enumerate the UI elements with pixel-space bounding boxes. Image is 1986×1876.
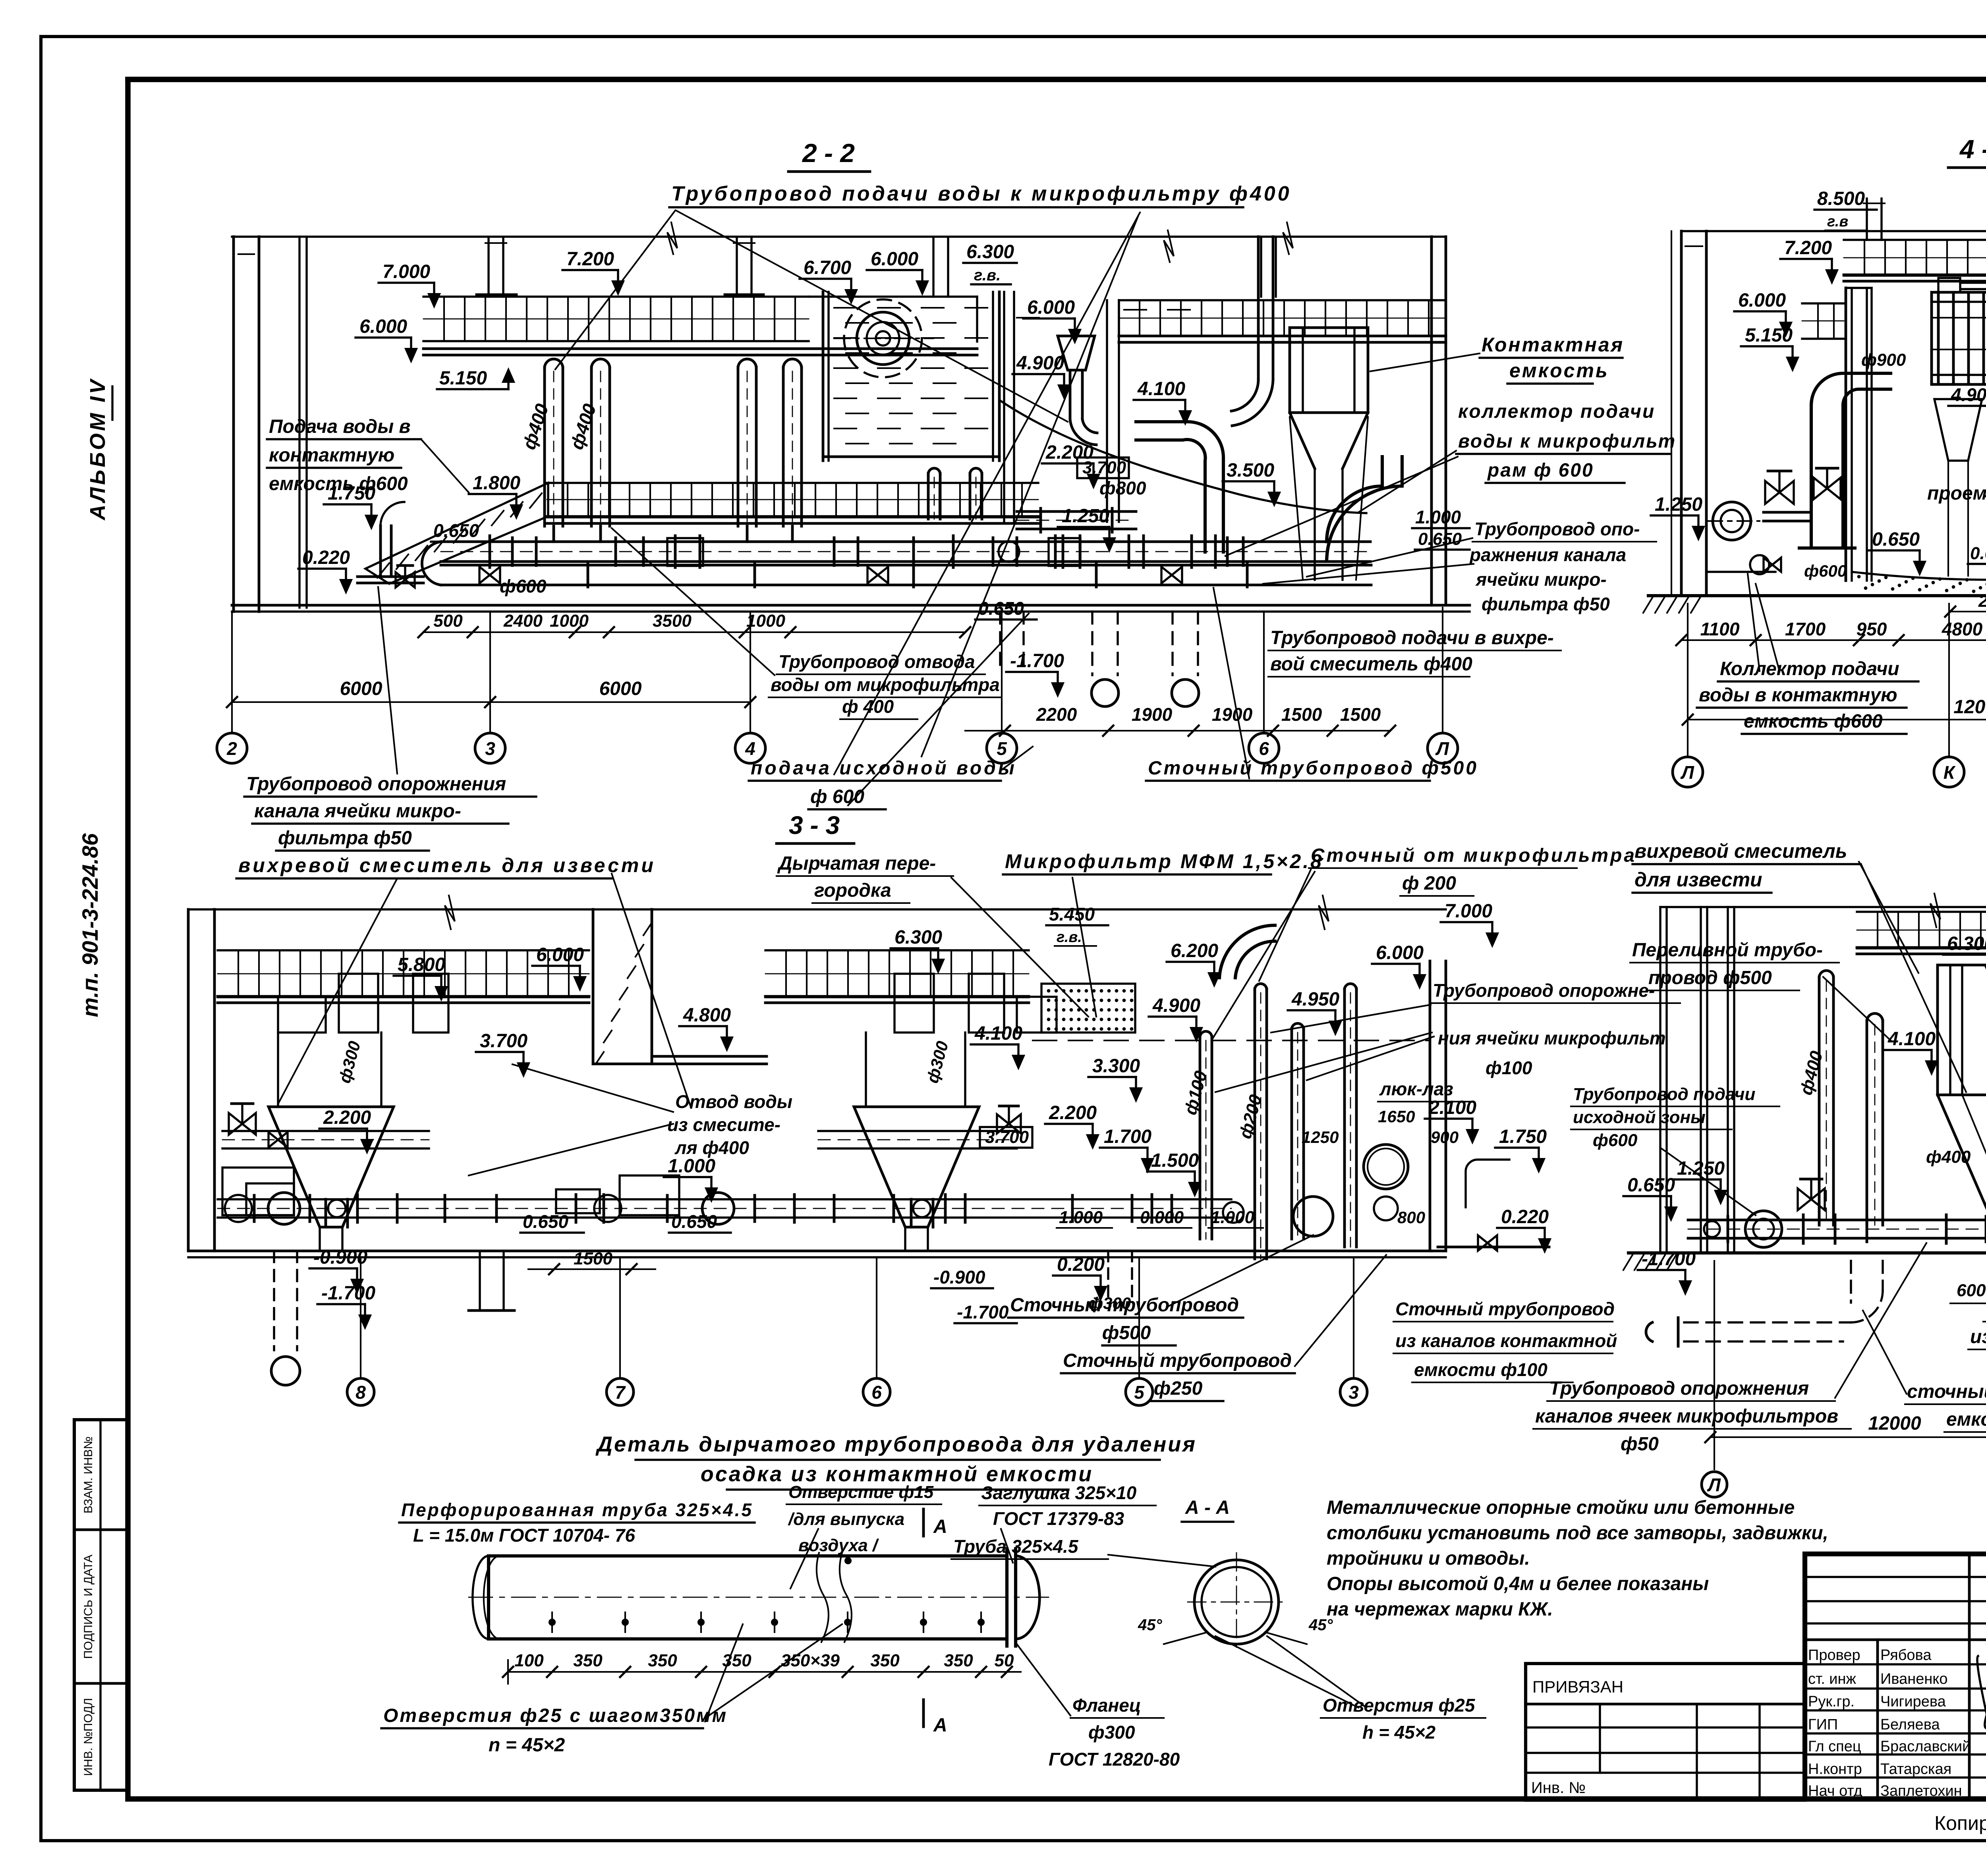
svg-text:-0.900: -0.900 (933, 1267, 985, 1287)
vortex mixer body 55 (1938, 965, 1986, 1095)
svg-text:сточный из контактной: сточный из контактной (1907, 1381, 1986, 1402)
svg-text:ф100: ф100 (1486, 1058, 1532, 1078)
right bay valve assembly (997, 1114, 1021, 1133)
svg-text:0.650: 0.650 (433, 520, 479, 541)
svg-text:ГИП: ГИП (1808, 1716, 1838, 1733)
svg-text:Сточный трубопровод ф500: Сточный трубопровод ф500 (1148, 758, 1478, 779)
ceiling slab right 2-2 (1119, 299, 1446, 301)
left feed pipe and valve (379, 526, 382, 577)
big elbow top 33 (1219, 925, 1275, 978)
top line 55 (1660, 906, 1986, 908)
drop pipe from above (1257, 237, 1260, 380)
svg-text:50: 50 (995, 1651, 1014, 1670)
svg-text:600: 600 (1957, 1281, 1986, 1300)
svg-text:h = 45×2: h = 45×2 (1362, 1722, 1436, 1743)
svg-text:1100: 1100 (1700, 619, 1740, 639)
pipes lower network 33 (218, 1198, 1231, 1200)
svg-text:5.800: 5.800 (398, 954, 445, 975)
pump block left 3-3 (246, 1183, 294, 1215)
svg-text:К: К (1943, 762, 1956, 783)
svg-text:5.150: 5.150 (1745, 325, 1793, 346)
svg-text:контактную: контактную (269, 445, 394, 466)
svg-text:5.150: 5.150 (439, 368, 487, 389)
svg-text:Контактная: Контактная (1482, 334, 1624, 356)
main pipe 55 (1688, 1219, 1986, 1222)
svg-text:2 - 2: 2 - 2 (802, 138, 855, 168)
dimension row 2-2 right (965, 730, 1390, 731)
slab edge step at pump bay (976, 297, 978, 342)
svg-text:350: 350 (944, 1651, 973, 1670)
svg-text:ПРИВЯЗАН: ПРИВЯЗАН (1532, 1677, 1623, 1696)
svg-text:2200: 2200 (1036, 704, 1077, 725)
svg-text:ГОСТ 12820-80: ГОСТ 12820-80 (1049, 1749, 1180, 1770)
svg-text:ния ячейки микрофильт: ния ячейки микрофильт (1438, 1028, 1666, 1048)
microfilter drum bars (1937, 295, 1940, 382)
svg-text:Л: Л (1707, 1475, 1721, 1495)
svg-text:1.250: 1.250 (1655, 494, 1702, 515)
svg-text:Л: Л (1680, 762, 1694, 783)
leader lines from top label (555, 210, 675, 369)
inclined hatch ramp (365, 483, 548, 584)
riser f200 33 (1254, 989, 1256, 1259)
svg-text:Трубопровод подачи воды к микр: Трубопровод подачи воды к микрофильтру ф… (671, 182, 1292, 205)
riser stubs to pipe 2-2 (553, 526, 555, 542)
svg-text:6.300: 6.300 (894, 927, 942, 948)
grid bubbles 3-3 (360, 1257, 361, 1377)
svg-text:0.650: 0.650 (671, 1211, 717, 1232)
signatures scribble (1977, 1656, 1986, 1786)
svg-text:ИНВ. №ПОДЛ: ИНВ. №ПОДЛ (82, 1698, 95, 1776)
riser f400 left 55 (1818, 977, 1821, 1225)
svg-text:1.000: 1.000 (1211, 1208, 1255, 1227)
svg-text:Н.контр: Н.контр (1808, 1761, 1862, 1778)
svg-text:1.250: 1.250 (1062, 506, 1109, 527)
svg-text:Отвод воды: Отвод воды (675, 1091, 792, 1112)
svg-text:6: 6 (871, 1382, 882, 1403)
riser f100 33 (1199, 1036, 1202, 1239)
svg-text:Иваненко: Иваненко (1880, 1671, 1948, 1687)
svg-text:2400: 2400 (1978, 591, 1986, 611)
ceiling slab 4-4 (1844, 239, 1986, 241)
svg-text:ля ф400: ля ф400 (674, 1137, 749, 1158)
svg-text:ГОСТ 17379-83: ГОСТ 17379-83 (993, 1508, 1124, 1529)
name rows (1805, 1663, 1986, 1665)
vessel bottom curve (1852, 572, 1986, 580)
svg-text:Трубопровод отвода: Трубопровод отвода (779, 651, 975, 672)
svg-text:1900: 1900 (1212, 704, 1253, 725)
svg-text:0.220: 0.220 (302, 547, 350, 568)
svg-text:6.000: 6.000 (359, 316, 407, 337)
pipe centerline (469, 1597, 1049, 1598)
svg-text:1900: 1900 (1132, 704, 1173, 725)
ceiling slab 55 A (1857, 911, 1986, 913)
svg-text:1.500: 1.500 (1151, 1150, 1199, 1171)
vortex mixer left cone (269, 1107, 394, 1227)
detail pipe body (489, 1556, 1007, 1639)
pump block mid 3-3 (594, 1195, 621, 1222)
svg-text:из каналов контактной: из каналов контактной (1395, 1330, 1617, 1351)
riser pipes group A (543, 367, 546, 526)
svg-text:0.650: 0.650 (1627, 1175, 1675, 1196)
svg-text:6.000: 6.000 (1376, 942, 1424, 963)
left valve assembly 33 (229, 1113, 256, 1135)
svg-text:тройники и отводы.: тройники и отводы. (1327, 1548, 1530, 1569)
svg-text:350: 350 (573, 1651, 603, 1670)
svg-text:коллектор подачи: коллектор подачи (1458, 401, 1655, 422)
AA circle (1194, 1560, 1279, 1644)
svg-text:1500: 1500 (1340, 704, 1381, 725)
pump 55 (1745, 1211, 1782, 1247)
partition wall column 33 (592, 909, 595, 1064)
svg-text:5: 5 (997, 738, 1007, 759)
dashed drain pipe bottom 55 (1684, 1321, 1851, 1323)
svg-text:для извести: для извести (1634, 869, 1762, 891)
svg-text:5.450: 5.450 (1049, 904, 1095, 924)
svg-text:1500: 1500 (574, 1249, 612, 1268)
svg-text:3.300: 3.300 (1092, 1056, 1140, 1077)
svg-text:4.100: 4.100 (1137, 378, 1185, 400)
vessel funnel (1290, 413, 1368, 469)
vortex mixer right cone (854, 1107, 979, 1227)
svg-text:6000: 6000 (599, 678, 642, 699)
hole pointer top (845, 1558, 851, 1563)
svg-text:ф 400: ф 400 (842, 696, 894, 717)
svg-text:0.650: 0.650 (1872, 529, 1920, 550)
svg-text:3.700: 3.700 (480, 1031, 527, 1052)
contact tank vessel (1290, 328, 1368, 413)
svg-text:6.000: 6.000 (871, 249, 918, 270)
funnel hoppers under drum (1934, 399, 1982, 461)
valve small f600 44 (1764, 558, 1781, 571)
dim row 4-4 chain (1681, 639, 1986, 641)
pipe right flange (1005, 1549, 1008, 1646)
right boundary wall 33 (1429, 961, 1432, 1251)
svg-text:воды в контактную: воды в контактную (1699, 685, 1897, 706)
riser mid 55 (1866, 1021, 1868, 1225)
svg-text:Заглушка 325×10: Заглушка 325×10 (981, 1482, 1137, 1503)
svg-text:фильтра ф50: фильтра ф50 (278, 828, 412, 849)
top reference line 4-4 (1681, 230, 1986, 232)
svg-text:емкости ф100: емкости ф100 (1414, 1359, 1547, 1380)
extra flanges 5-5 pipe (1727, 1216, 1729, 1242)
top frame rule (128, 77, 1986, 82)
svg-text:6: 6 (1259, 738, 1269, 759)
svg-text:Трубопровод подачи в вихре-: Трубопровод подачи в вихре- (1270, 627, 1554, 648)
svg-text:Рябова: Рябова (1880, 1647, 1932, 1664)
svg-text:1.750: 1.750 (1499, 1126, 1547, 1147)
svg-text:4.800: 4.800 (683, 1005, 731, 1026)
svg-text:4800: 4800 (1942, 619, 1983, 639)
svg-text:Перфорированная труба 325×4.5: Перфорированная труба 325×4.5 (401, 1500, 753, 1520)
title block verticals (1876, 1640, 1879, 1799)
svg-text:Браславский: Браславский (1880, 1738, 1971, 1755)
svg-text:г.в: г.в (1827, 213, 1848, 230)
slab small left patch (1802, 302, 1844, 304)
drain holes (549, 1619, 555, 1625)
perforated plate dotted (1041, 984, 1135, 1033)
svg-text:0.000: 0.000 (1970, 544, 1986, 563)
svg-text:1.800: 1.800 (473, 473, 520, 494)
svg-text:1250: 1250 (1302, 1128, 1339, 1146)
svg-text:ВЗАМ. ИНВ№: ВЗАМ. ИНВ№ (82, 1436, 95, 1513)
dim row 55 (1710, 1436, 1986, 1438)
extra flanges 3-3 pipe (253, 1195, 256, 1222)
riser pair c 33 (1291, 1029, 1293, 1239)
water surface hatching (834, 307, 856, 309)
dim row 12000 44 (1688, 719, 1986, 720)
svg-text:Л: Л (1435, 738, 1449, 759)
privyazan table (1526, 1664, 1805, 1800)
svg-text:6.300: 6.300 (1947, 933, 1986, 954)
svg-text:вихревой смеситель для извести: вихревой смеситель для извести (238, 854, 656, 876)
svg-text:ст. инж: ст. инж (1808, 1671, 1857, 1687)
wall axis 2 left wall (232, 237, 235, 612)
svg-text:ф 200: ф 200 (1402, 873, 1456, 894)
svg-text:4.900: 4.900 (1016, 353, 1064, 374)
svg-text:6.000: 6.000 (1027, 297, 1075, 318)
svg-text:рам ф 600: рам ф 600 (1487, 460, 1594, 481)
svg-text:0.220: 0.220 (1501, 1206, 1549, 1228)
svg-text:0.650: 0.650 (523, 1211, 569, 1232)
svg-text:1.000: 1.000 (1415, 507, 1461, 527)
svg-text:Отверстие ф15: Отверстие ф15 (788, 1482, 934, 1502)
svg-text:Копировал· Коршунова: Копировал· Коршунова (1934, 1812, 1986, 1834)
riser pair d 33 (1343, 989, 1346, 1247)
ceiling slab 33 A (218, 949, 589, 951)
svg-text:3: 3 (485, 738, 495, 759)
microfilter drum outline (1932, 292, 1986, 384)
extra flanges main pipe 2-2 (511, 538, 514, 566)
svg-text:5: 5 (1134, 1382, 1145, 1403)
grid bubble L 2-2 (1442, 608, 1443, 733)
svg-text:1700: 1700 (1785, 619, 1826, 639)
left wall 4-4 (1680, 231, 1683, 596)
svg-text:8.500: 8.500 (1817, 188, 1865, 209)
svg-text:/для выпуска: /для выпуска (788, 1509, 904, 1529)
svg-text:А: А (933, 1715, 947, 1736)
svg-text:-0.900: -0.900 (313, 1247, 367, 1268)
main pipe upper f600 (441, 540, 1370, 543)
svg-text:Фланец: Фланец (1072, 1695, 1141, 1716)
svg-text:n = 45×2: n = 45×2 (489, 1735, 565, 1756)
svg-text:7.200: 7.200 (1784, 237, 1832, 259)
ceiling slab 33 B (765, 949, 1029, 951)
elbow cluster right 2-2 (1327, 457, 1382, 542)
mixer support boxes right bay (894, 974, 934, 1033)
svg-text:2.200: 2.200 (1049, 1102, 1097, 1123)
svg-text:2.200: 2.200 (323, 1107, 371, 1128)
pipe cross-section circles 33 (268, 1193, 300, 1224)
feed funnel (1058, 336, 1095, 370)
svg-text:Дырчатая пере-: Дырчатая пере- (777, 853, 936, 874)
svg-text:1.700: 1.700 (1104, 1126, 1151, 1147)
svg-text:на чертежах марки КЖ.: на чертежах марки КЖ. (1327, 1599, 1553, 1620)
svg-text:Подача воды в: Подача воды в (269, 416, 411, 437)
big elbow pipe 4-4 (1810, 405, 1813, 548)
left stamp box (74, 1420, 128, 1790)
title block top rows (1805, 1576, 1986, 1578)
svg-text:фильтра ф50: фильтра ф50 (1482, 594, 1610, 614)
wall column right (1106, 300, 1108, 522)
underfloor drain left (273, 1251, 275, 1350)
svg-text:Инв. №: Инв. № (1531, 1779, 1586, 1797)
svg-text:3.500: 3.500 (1227, 460, 1274, 481)
main pipe lower (441, 564, 1371, 567)
svg-text:6.000: 6.000 (536, 944, 584, 965)
svg-text:350: 350 (648, 1651, 677, 1670)
left wall 33 (187, 909, 190, 1251)
svg-text:А: А (933, 1516, 947, 1537)
svg-text:Нач отд: Нач отд (1808, 1783, 1862, 1799)
svg-text:вой смеситель ф400: вой смеситель ф400 (1270, 654, 1472, 675)
svg-text:емкость ф600: емкость ф600 (1744, 711, 1883, 732)
svg-text:Чигирева: Чигирева (1880, 1693, 1946, 1710)
svg-text:ячейки микро-: ячейки микро- (1475, 569, 1607, 590)
collector pipe stub 2-2 (1017, 510, 1136, 513)
dim row 2400-500 (1950, 611, 1986, 612)
slab soffit double line (423, 347, 977, 350)
dimension row 6000 (232, 701, 750, 703)
svg-text:вихревой смеситель: вихревой смеситель (1634, 840, 1847, 862)
svg-text:7.000: 7.000 (383, 261, 430, 282)
valve cluster mid 2-2 (999, 541, 1019, 562)
svg-text:г.в.: г.в. (1057, 929, 1082, 946)
svg-text:ф500: ф500 (1102, 1322, 1151, 1343)
water level dash 33 (1033, 1040, 1430, 1041)
mixer funnel 55 (1938, 1095, 1986, 1225)
svg-text:Провер: Провер (1808, 1647, 1860, 1664)
svg-text:500: 500 (433, 611, 463, 631)
lower slab 2-2 (547, 482, 1038, 484)
manifold boxes left (222, 1168, 294, 1215)
water tank walls (822, 292, 825, 461)
svg-text:0.200: 0.200 (1057, 1254, 1105, 1275)
svg-text:3 - 3: 3 - 3 (789, 811, 840, 840)
svg-text:столбики установить под все за: столбики установить под все затворы, зад… (1327, 1523, 1828, 1544)
svg-text:8: 8 (355, 1382, 366, 1403)
svg-text:45°: 45° (1138, 1616, 1162, 1634)
small risers near tank (927, 473, 930, 519)
svg-text:2: 2 (226, 738, 237, 759)
underfloor stub mid (479, 1251, 481, 1310)
svg-text:исходной зоны: исходной зоны (1573, 1108, 1706, 1127)
svg-text:емкость: емкость (1509, 359, 1609, 382)
svg-text:100: 100 (514, 1651, 544, 1670)
wall leftmost aux (1671, 231, 1672, 596)
svg-text:Трубопровод опорожнения: Трубопровод опорожнения (246, 774, 506, 795)
vessel walls 4-4 (1845, 288, 1847, 581)
svg-text:-1.700: -1.700 (321, 1283, 375, 1304)
svg-text:6.000: 6.000 (1738, 290, 1786, 311)
AA 45deg lines (1164, 1632, 1207, 1644)
svg-text:L = 15.0м ГОСТ 10704- 76: L = 15.0м ГОСТ 10704- 76 (413, 1525, 635, 1546)
grid bubbles 55 (1714, 1261, 1715, 1469)
svg-text:Заплетохин: Заплетохин (1880, 1783, 1962, 1799)
svg-text:г.в.: г.в. (974, 266, 1001, 284)
svg-text:7.200: 7.200 (566, 249, 614, 270)
svg-text:Сточный трубопровод: Сточный трубопровод (1063, 1350, 1292, 1371)
wall column mid (1003, 292, 1005, 522)
dimension row 2-2 small (423, 631, 965, 633)
top line 3-3 (188, 908, 1446, 910)
section A marker bottom (922, 1700, 925, 1727)
svg-text:из смесите-: из смесите- (667, 1114, 780, 1135)
f300 drop right (1107, 1251, 1109, 1303)
svg-text:Сточный трубопровод: Сточный трубопровод (1395, 1299, 1615, 1319)
svg-text:А - А: А - А (1185, 1497, 1230, 1518)
svg-text:воды от микрофильтра: воды от микрофильтра (771, 674, 1000, 695)
overflow profile line (1001, 401, 1366, 513)
svg-text:4: 4 (745, 738, 755, 759)
svg-text:т.п. 901-3-224.86: т.п. 901-3-224.86 (77, 833, 102, 1017)
mixer outlet stubs 3-3 (325, 1199, 327, 1227)
svg-text:350: 350 (870, 1651, 900, 1670)
svg-text:7.000: 7.000 (1445, 901, 1492, 922)
pipe valves (867, 567, 888, 583)
roof columns (487, 238, 489, 297)
svg-text:4.900: 4.900 (1152, 995, 1200, 1016)
dim 1500 33 (528, 1268, 655, 1270)
water dashes small 2-2 right (1124, 309, 1146, 311)
floor line 33 (188, 1250, 1446, 1253)
svg-text:4 - 4: 4 - 4 (1959, 134, 1986, 164)
svg-text:ф600: ф600 (500, 576, 547, 596)
svg-text:3: 3 (1348, 1382, 1359, 1403)
ground 55 (1629, 1251, 1986, 1255)
svg-text:ф900: ф900 (1861, 350, 1906, 370)
svg-text:ражнения канала: ражнения канала (1469, 544, 1626, 565)
svg-text:ф50: ф50 (1621, 1434, 1659, 1455)
svg-text:2400: 2400 (503, 611, 543, 631)
svg-text:900: 900 (1431, 1128, 1459, 1146)
large f800 elbow (1136, 422, 1223, 552)
roof columns 44 (1866, 199, 1868, 240)
svg-text:6000: 6000 (340, 678, 383, 699)
svg-text:ф400: ф400 (1926, 1147, 1971, 1167)
manhole circle (1364, 1145, 1408, 1189)
svg-text:7: 7 (615, 1382, 626, 1403)
svg-text:канала ячейки микро-: канала ячейки микро- (254, 801, 461, 822)
svg-text:2.100: 2.100 (1428, 1097, 1476, 1118)
svg-text:из вихревого смесителя: из вихревого смесителя (1970, 1326, 1986, 1347)
svg-text:1.000: 1.000 (668, 1156, 715, 1177)
svg-text:ф600: ф600 (1593, 1131, 1638, 1150)
svg-text:0.000: 0.000 (1140, 1208, 1184, 1227)
riser pipes group B (737, 367, 740, 526)
svg-text:4.100: 4.100 (1887, 1029, 1936, 1050)
svg-text:800: 800 (1397, 1208, 1425, 1227)
svg-text:ПОДПИСЬ И ДАТА: ПОДПИСЬ И ДАТА (82, 1555, 95, 1659)
svg-text:Металлические опорные стойки и: Металлические опорные стойки или бетонны… (1327, 1497, 1795, 1518)
top reference line 2-2 (232, 235, 1446, 237)
floor line 2-2 (232, 604, 1470, 607)
svg-text:950: 950 (1857, 619, 1887, 639)
svg-text:6.700: 6.700 (804, 257, 851, 278)
svg-text:3500: 3500 (653, 611, 692, 631)
svg-text:1650: 1650 (1378, 1107, 1415, 1126)
section A marker top (922, 1509, 925, 1536)
underfloor drop pipes with circles (1091, 612, 1093, 675)
svg-text:6.300: 6.300 (966, 241, 1014, 262)
svg-text:люк-лаз: люк-лаз (1379, 1079, 1453, 1099)
svg-text:-1.700: -1.700 (957, 1302, 1009, 1322)
svg-text:Отверстия ф25 с шагом350мм: Отверстия ф25 с шагом350мм (383, 1705, 728, 1726)
svg-text:Сточный трубопровод: Сточный трубопровод (1010, 1295, 1239, 1316)
pump trim 5-5 (1704, 1221, 1720, 1237)
ground line 4-4 (1648, 594, 1986, 597)
extra flanges lower pipe 2-2 (587, 563, 589, 587)
svg-text:Опоры высотой 0,4м и белее пок: Опоры высотой 0,4м и белее показаны (1327, 1573, 1709, 1594)
